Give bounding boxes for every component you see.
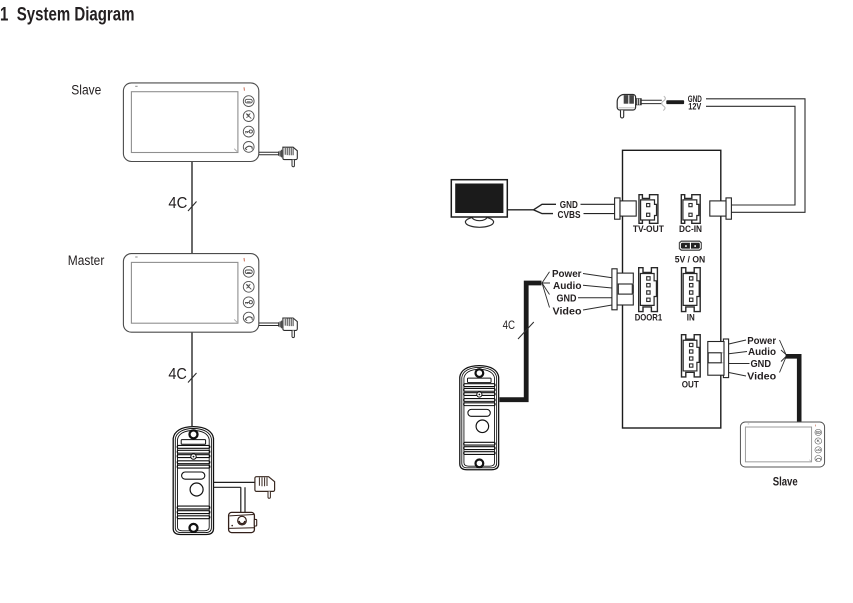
wire door1 to lock and plug	[214, 482, 255, 513]
wire GND to DC-IN	[706, 99, 805, 213]
connector IN	[682, 268, 701, 312]
fan lines at DOOR1 cable	[542, 272, 550, 308]
svg-text:DOOR1: DOOR1	[635, 313, 663, 324]
svg-text:Power: Power	[552, 268, 582, 280]
wire TV to TV-OUT with fork	[508, 204, 616, 213]
slash mark lower	[188, 373, 197, 383]
svg-text:CVBS: CVBS	[558, 210, 581, 221]
slash mark upper	[188, 202, 197, 212]
thick cable to DOOR1	[500, 283, 542, 400]
svg-text:GND: GND	[557, 293, 577, 305]
leader lines to DOOR1 plug	[578, 274, 612, 311]
TV-OUT external plug	[615, 198, 637, 219]
lock power plug	[255, 477, 275, 499]
fan lines at OUT cable	[780, 340, 787, 373]
svg-text:OUT: OUT	[682, 380, 699, 391]
connector OUT	[682, 335, 701, 377]
connector DC-IN	[681, 195, 700, 224]
connector DOOR1	[639, 268, 658, 312]
power plug of slave monitor	[259, 147, 297, 167]
svg-text:12V: 12V	[688, 102, 702, 113]
electric lock	[229, 512, 257, 532]
wire slave to master 4C	[191, 162, 193, 254]
svg-text:IN: IN	[687, 313, 695, 324]
svg-text:DC-IN: DC-IN	[679, 224, 702, 235]
power adapter (top)	[617, 95, 684, 119]
slave monitor 2 (small)	[740, 422, 824, 467]
door station 1	[173, 427, 213, 535]
main unit rectangle	[623, 150, 721, 428]
svg-text:Slave: Slave	[71, 83, 101, 98]
svg-text:5V / ON: 5V / ON	[675, 254, 706, 265]
wire 12V to DC-IN	[706, 106, 795, 205]
wire master to door station 4C	[191, 332, 193, 426]
thick cable OUT to slave2	[786, 356, 800, 421]
svg-text:Video: Video	[747, 370, 776, 382]
OUT external plug	[708, 339, 729, 378]
leader lines from OUT plug	[729, 340, 750, 376]
svg-text:4C: 4C	[503, 318, 516, 332]
power plug of master monitor	[259, 318, 297, 338]
svg-text:GND: GND	[751, 358, 772, 370]
monitor Slave (top)	[123, 83, 258, 162]
door station 2	[460, 366, 499, 470]
TV set	[451, 180, 507, 228]
svg-text:Video: Video	[553, 306, 582, 318]
monitor Master	[123, 254, 258, 333]
connector TV-OUT	[639, 195, 658, 224]
svg-text:TV-OUT: TV-OUT	[633, 224, 664, 235]
svg-text:4C: 4C	[168, 195, 187, 212]
DOOR1 external plug	[612, 269, 634, 310]
svg-text:Slave: Slave	[773, 476, 798, 488]
svg-text:Master: Master	[68, 253, 105, 268]
svg-text:4C: 4C	[168, 366, 187, 383]
jumper 5V/ON	[679, 241, 701, 251]
slash mark right 4C	[518, 322, 534, 339]
svg-text:1 System Diagram: 1 System Diagram	[0, 4, 135, 25]
svg-text:Audio: Audio	[553, 280, 582, 292]
svg-text:Audio: Audio	[748, 346, 776, 358]
DC-IN external plug	[710, 198, 732, 219]
